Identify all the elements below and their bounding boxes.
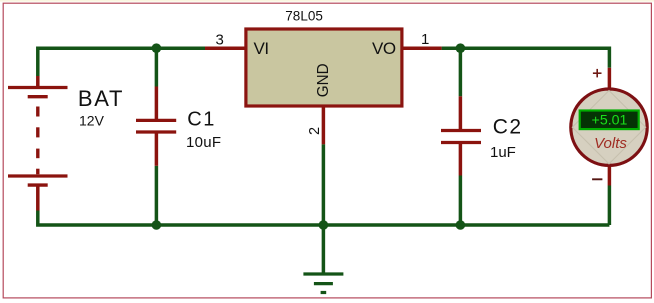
svg-text:C2: C2 bbox=[493, 116, 523, 139]
svg-text:C1: C1 bbox=[187, 109, 216, 131]
svg-text:2: 2 bbox=[307, 127, 323, 135]
svg-text:VI: VI bbox=[254, 39, 269, 58]
svg-text:GND: GND bbox=[315, 63, 332, 97]
svg-text:1uF: 1uF bbox=[490, 144, 516, 161]
svg-text:VO: VO bbox=[372, 39, 396, 58]
svg-text:+5.01: +5.01 bbox=[592, 113, 628, 129]
svg-text:Volts: Volts bbox=[594, 135, 627, 152]
svg-text:10uF: 10uF bbox=[186, 134, 221, 151]
svg-text:3: 3 bbox=[216, 32, 224, 49]
svg-text:BAT: BAT bbox=[78, 86, 124, 111]
svg-text:78L05: 78L05 bbox=[285, 9, 323, 24]
svg-text:1: 1 bbox=[421, 31, 429, 48]
svg-text:12V: 12V bbox=[79, 113, 105, 129]
